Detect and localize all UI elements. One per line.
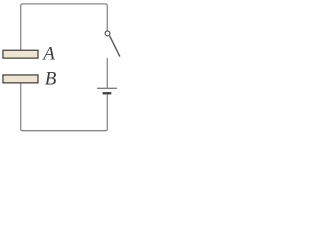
svg-text:B: B — [45, 68, 57, 89]
svg-text:A: A — [41, 44, 55, 65]
